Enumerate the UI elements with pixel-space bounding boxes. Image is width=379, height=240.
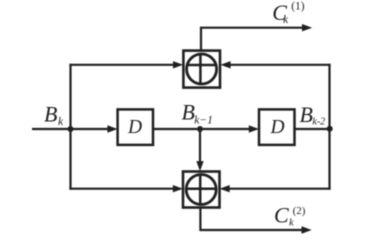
svg-text:D: D: [270, 117, 285, 138]
arrow output Ck1: [302, 24, 312, 31]
wire: input Bk line: [32, 128, 109, 130]
wire: bottom-left run to adder U2: [69, 188, 174, 190]
delay element D1: [118, 109, 153, 144]
svg-text:C: C: [274, 203, 289, 228]
arrow into delay D1: [107, 125, 117, 132]
node Bk-1 junction dot: [197, 126, 203, 132]
svg-text:D: D: [127, 117, 142, 138]
label Bk: [44, 101, 64, 127]
label Ck(2): [274, 203, 306, 229]
wire: bottom feedback from right rail to U2: [229, 188, 331, 190]
svg-text:k-2: k-2: [312, 117, 325, 128]
label Ck(1): [272, 0, 304, 26]
op-amp U2: XOR adder box: [183, 172, 220, 208]
wire: right rail: [328, 64, 330, 190]
op-amp U1: XOR adder box: [183, 51, 220, 88]
label Bk-2: [300, 102, 326, 128]
wire: node Bk-1 down to adder U2: [199, 129, 201, 162]
arrow into adder U1 right: [220, 61, 230, 68]
wire: U2 output down and right: [200, 208, 302, 231]
arrow into adder U2 left: [173, 185, 183, 192]
wire: D1 output to node Bk-1: [153, 128, 200, 130]
wire: D2 output to right rail: [295, 128, 330, 130]
node Bk junction dot: [68, 126, 74, 132]
label Bk-1: [182, 100, 213, 127]
svg-text:B: B: [44, 101, 57, 126]
node Bk-2 junction dot: [327, 126, 333, 132]
arrow into adder U2 right: [220, 185, 230, 192]
wire: top feedback from right rail to U1: [230, 64, 331, 66]
wire: left rail from Bk node up and down: [69, 64, 71, 190]
arrow into delay D2: [249, 125, 259, 132]
svg-text:B: B: [182, 100, 195, 125]
wire: U1 output up and right: [201, 28, 303, 51]
arrow into adder U2 top: [196, 161, 203, 171]
delay element D2: [259, 109, 295, 144]
svg-text:k−1: k−1: [194, 114, 213, 126]
svg-text:k: k: [289, 217, 294, 228]
svg-text:k: k: [58, 116, 64, 128]
svg-text:(1): (1): [291, 1, 305, 13]
svg-text:(2): (2): [293, 205, 306, 217]
svg-text:k: k: [283, 14, 289, 26]
wire: node Bk-1 to delay D2: [200, 128, 250, 130]
arrow output Ck2: [302, 226, 312, 233]
svg-text:B: B: [300, 102, 313, 127]
wire: top-left run to adder U1: [69, 64, 174, 66]
arrow into adder U1 left: [173, 61, 183, 68]
